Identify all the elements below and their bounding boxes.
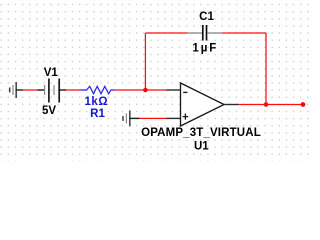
wire feedback left vertical <box>144 33 146 90</box>
wire C1 to right vertical <box>222 32 266 34</box>
battery V1 <box>38 79 67 103</box>
svg-text:OPAMP_3T_VIRTUAL: OPAMP_3T_VIRTUAL <box>141 127 261 139</box>
op-amp U1 <box>167 83 239 126</box>
ground GND1 <box>10 82 23 98</box>
wire R1 to junction and opamp <box>114 89 166 91</box>
resistor R1 <box>81 86 115 94</box>
wire ground2 to opamp <box>140 117 167 119</box>
ground GND2 <box>123 110 140 126</box>
wire ground to V1 <box>23 89 38 91</box>
wire output <box>266 104 303 106</box>
svg-text:C1: C1 <box>199 11 214 23</box>
capacitor C1 <box>188 25 223 41</box>
junction node A <box>143 88 148 93</box>
wire opamp output <box>239 104 267 106</box>
junction node B <box>264 102 269 107</box>
svg-text:U1: U1 <box>194 141 209 153</box>
svg-text:5V: 5V <box>42 105 56 117</box>
wire feedback top left <box>145 32 187 34</box>
svg-text:1kΩ: 1kΩ <box>85 96 109 108</box>
svg-text:V1: V1 <box>44 67 59 79</box>
svg-text:1µF: 1µF <box>192 43 218 55</box>
svg-text:R1: R1 <box>90 108 105 120</box>
wire right vertical <box>265 33 267 105</box>
wire V1 to R1 <box>66 89 81 91</box>
node output end dot <box>301 102 306 107</box>
